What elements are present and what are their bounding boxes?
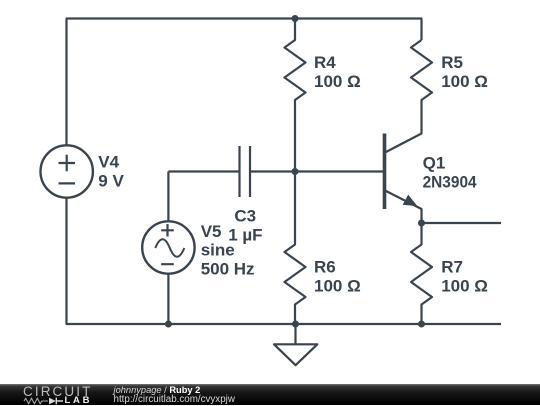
svg-text:1 µF: 1 µF [228, 225, 262, 244]
svg-text:R5: R5 [441, 53, 463, 72]
svg-text:R6: R6 [314, 258, 336, 277]
svg-text:R7: R7 [441, 258, 463, 277]
svg-text:100 Ω: 100 Ω [314, 72, 361, 91]
svg-text:100 Ω: 100 Ω [314, 277, 361, 296]
svg-text:C3: C3 [234, 207, 256, 226]
svg-text:100 Ω: 100 Ω [441, 72, 488, 91]
svg-text:R4: R4 [314, 53, 336, 72]
svg-text:100 Ω: 100 Ω [441, 277, 488, 296]
svg-text:Q1: Q1 [423, 154, 446, 173]
svg-text:2N3904: 2N3904 [423, 173, 477, 192]
svg-text:500 Hz: 500 Hz [201, 259, 255, 278]
svg-text:9 V: 9 V [98, 172, 124, 191]
svg-text:V4: V4 [98, 153, 119, 172]
svg-text:V5: V5 [201, 222, 222, 241]
